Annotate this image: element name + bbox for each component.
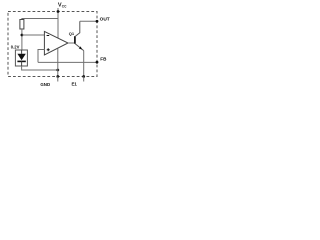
wire op-amp ground pin: [57, 49, 59, 77]
transistor Q1 emitter with arrow: [75, 44, 84, 51]
wire node A to op-amp inverting input: [22, 34, 45, 36]
wire VCC to resistor top: [22, 19, 58, 20]
diode D1 box: [15, 50, 27, 66]
wire E1 pin stub: [83, 77, 85, 82]
node GND pin dot: [56, 75, 59, 78]
node FB junction dot: [96, 61, 99, 64]
VCC pin line: [57, 8, 59, 38]
svg-text:GND: GND: [40, 82, 50, 87]
op-amp U1: [44, 31, 68, 55]
wire resistor bottom to node A: [21, 29, 23, 50]
wire diode cathode to ground rail: [22, 66, 58, 70]
wire emitter to E1 pin: [83, 51, 85, 77]
svg-text:0.2V: 0.2V: [11, 45, 20, 50]
wire GND pin stub: [57, 77, 59, 82]
wire collector to OUT pin: [80, 20, 97, 22]
IC boundary dashed box: [8, 12, 97, 77]
svg-text:CC: CC: [62, 4, 67, 8]
svg-text:FB: FB: [100, 57, 107, 62]
wire op-amp non-inverting input loop: [38, 50, 45, 63]
node OUT junction dot: [96, 20, 99, 23]
op-amp minus sign: [47, 35, 50, 37]
node VCC junction dot: [57, 10, 60, 13]
transistor Q1 collector: [75, 21, 80, 36]
VCC label: [58, 2, 67, 8]
svg-text:E1: E1: [72, 82, 78, 87]
diode D1 0.2V reference: [17, 50, 25, 66]
node ground rail junction dot: [56, 69, 59, 72]
svg-text:Q1: Q1: [69, 31, 75, 36]
wire op-amp output to Q1 base: [68, 42, 75, 44]
node A junction dot: [21, 34, 24, 37]
node E1 pin dot: [82, 75, 85, 78]
op-amp plus sign: [47, 48, 50, 51]
wire feedback rail to FB pin: [38, 61, 97, 63]
svg-text:OUT: OUT: [100, 17, 110, 23]
transistor Q1 base bar: [74, 36, 76, 44]
resistor R1: [20, 20, 24, 30]
